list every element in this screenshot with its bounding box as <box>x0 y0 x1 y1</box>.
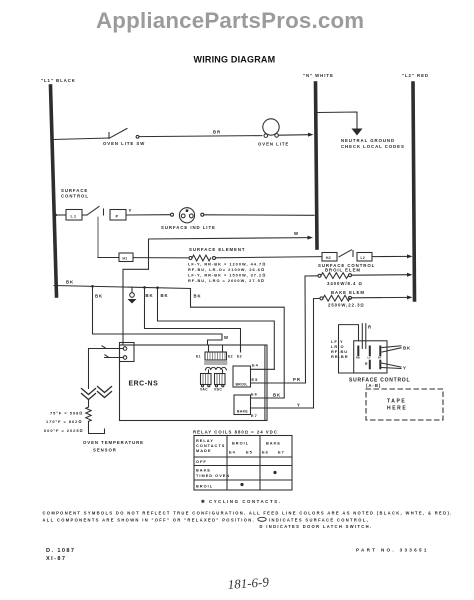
relay broil K1 <box>233 366 251 387</box>
svg-text:E6: E6 <box>262 450 269 455</box>
svg-text:PR: PR <box>293 377 301 382</box>
ground chassis <box>131 287 133 293</box>
wire element to H2 <box>216 257 323 258</box>
wire E7 Y <box>251 407 314 409</box>
wire sensor lead 1 <box>89 348 124 350</box>
svg-text:SURFACE: SURFACE <box>61 188 88 193</box>
svg-text:✱ CYCLING CONTACTS.: ✱ CYCLING CONTACTS. <box>201 499 281 504</box>
svg-text:Y: Y <box>129 208 133 213</box>
wire Y leads <box>381 363 401 367</box>
svg-text:H2: H2 <box>326 256 331 260</box>
svg-text:BR: BR <box>213 130 221 135</box>
svg-text:"N" WHITE: "N" WHITE <box>303 73 334 78</box>
svg-text:E4: E4 <box>252 363 259 368</box>
svg-text:PART NO. 333651: PART NO. 333651 <box>356 548 429 553</box>
svg-text:BROIL ELEM: BROIL ELEM <box>325 268 361 273</box>
wire E4 <box>251 368 275 370</box>
wire L1 bus bottom row <box>54 286 191 289</box>
svg-text:BK: BK <box>161 293 169 298</box>
svg-text:E5: E5 <box>246 450 253 455</box>
svg-text:BK: BK <box>194 294 202 299</box>
svg-text:H1: H1 <box>123 256 128 260</box>
svg-text:SURFACE ELEMENT: SURFACE ELEMENT <box>189 247 246 252</box>
svg-text:E7: E7 <box>278 450 285 455</box>
svg-text:181-6-9: 181-6-9 <box>227 574 270 592</box>
svg-text:CONTROL: CONTROL <box>61 194 89 199</box>
svg-text:RR-BR: RR-BR <box>331 354 349 359</box>
svg-text:LF-Y, RR-BK = 1200W, 44.7Ω: LF-Y, RR-BK = 1200W, 44.7Ω <box>188 262 266 267</box>
svg-text:3400W/8.4 Ω: 3400W/8.4 Ω <box>327 281 363 286</box>
wire oven lite row left <box>53 138 109 140</box>
svg-text:MADE: MADE <box>196 448 211 453</box>
terminal P box <box>110 210 126 221</box>
svg-text:E5: E5 <box>252 377 259 382</box>
svg-text:P: P <box>116 214 120 219</box>
svg-text:INDICATES SURFACE CONTROL,: INDICATES SURFACE CONTROL, <box>269 518 369 523</box>
transformer T1 <box>208 345 210 352</box>
svg-text:(A-B): (A-B) <box>366 383 381 388</box>
wire switch linkage <box>97 217 99 258</box>
svg-text:AppliancePartsPros.com: AppliancePartsPros.com <box>96 8 364 33</box>
wire PR riser <box>304 276 307 383</box>
svg-text:CHECK LOCAL CODES: CHECK LOCAL CODES <box>341 144 405 149</box>
svg-text:RF-BU, LR-O= 2100W, 26.6Ω: RF-BU, LR-O= 2100W, 26.6Ω <box>188 267 265 272</box>
svg-text:L1: L1 <box>71 214 78 219</box>
svg-text:XI-87: XI-87 <box>46 556 66 562</box>
lamp oven lite <box>263 119 279 135</box>
switch door latch D <box>339 250 352 257</box>
svg-text:BK: BK <box>66 280 74 285</box>
svg-text:BK: BK <box>403 346 411 351</box>
wire W drop <box>123 239 149 345</box>
svg-text:BROIL: BROIL <box>196 484 213 489</box>
ERC control box <box>120 345 268 421</box>
bus N <box>316 83 318 248</box>
bus L2 <box>413 83 415 300</box>
svg-text:LF: LF <box>368 356 372 360</box>
wire along ERC right edge <box>264 346 266 421</box>
wire P to lamp <box>126 214 171 216</box>
svg-text:600°F = 2025Ω: 600°F = 2025Ω <box>44 428 84 433</box>
svg-text:BK: BK <box>273 393 281 398</box>
svg-text:R: R <box>365 362 368 366</box>
svg-text:RELAY COILS 880Ω ≈ 24 VDC: RELAY COILS 880Ω ≈ 24 VDC <box>193 430 278 435</box>
terminal L1 box <box>66 210 82 221</box>
wire oven lite row mid <box>139 136 262 137</box>
wire E6 nest <box>191 289 285 399</box>
resistor sensor <box>86 407 91 421</box>
svg-text:RF-BU, LRO = 2600W, 27.5Ω: RF-BU, LRO = 2600W, 27.5Ω <box>188 278 265 283</box>
svg-text:"L1" BLACK: "L1" BLACK <box>41 78 76 83</box>
wire E3 nest <box>145 287 241 352</box>
wire L1 to terminal box <box>56 214 67 216</box>
svg-text:E4: E4 <box>229 450 236 455</box>
resistor broil element <box>321 273 348 279</box>
wire broil row <box>305 275 318 277</box>
svg-text:RF: RF <box>378 356 382 360</box>
switch surface control pole <box>82 214 87 216</box>
resistor surface element <box>192 255 211 261</box>
svg-text:W: W <box>224 335 229 340</box>
node junction row <box>91 285 94 288</box>
svg-text:ALL COMPONENTS ARE SHOWN IN ": ALL COMPONENTS ARE SHOWN IN "OFF" OR "RE… <box>43 518 256 523</box>
svg-text:BROIL: BROIL <box>236 383 248 387</box>
svg-text:OVEN LITE SW: OVEN LITE SW <box>103 141 145 146</box>
terminal H1 box <box>119 253 133 262</box>
svg-text:TIMED OVEN: TIMED OVEN <box>196 473 230 478</box>
wire bake row <box>314 297 321 299</box>
oven temperature sensor <box>88 349 90 389</box>
svg-text:VAC: VAC <box>200 388 208 392</box>
wire E5 PR <box>251 382 306 384</box>
svg-text:2500W,22.3Ω: 2500W,22.3Ω <box>328 303 365 308</box>
svg-text:E2: E2 <box>228 355 233 359</box>
svg-text:Y: Y <box>403 366 407 371</box>
terminal L2 box <box>357 253 372 262</box>
coil VDC <box>215 374 226 385</box>
svg-text:HERE: HERE <box>387 406 407 412</box>
wire BK leads <box>382 346 401 348</box>
wire oven lite row right <box>279 134 310 137</box>
surface control A-B connector <box>354 341 387 373</box>
wire E3 terminal <box>240 345 242 352</box>
wire lamp to N bus <box>204 214 314 217</box>
svg-text:NEUTRAL GROUND: NEUTRAL GROUND <box>341 138 395 143</box>
switch oven lite sw <box>108 133 110 139</box>
wire neutral ground tap <box>318 112 357 129</box>
svg-text:RB: RB <box>356 356 360 360</box>
coil VAC <box>201 374 212 385</box>
svg-text:W: W <box>294 231 299 236</box>
svg-text:TAPE: TAPE <box>387 399 406 405</box>
svg-text:OFF: OFF <box>196 459 207 464</box>
svg-text:BK: BK <box>95 294 103 299</box>
lamp surface ind lite <box>179 208 194 223</box>
svg-text:L2: L2 <box>361 256 366 260</box>
svg-text:BAKE: BAKE <box>196 468 211 473</box>
svg-text:D INDICATES DOOR LATCH SWITC: D INDICATES DOOR LATCH SWITCH. <box>260 524 373 529</box>
svg-text:WIRING DIAGRAM: WIRING DIAGRAM <box>194 55 276 65</box>
wire L2 box to bus <box>372 255 408 257</box>
resistor bake element <box>323 295 350 301</box>
wire R pair <box>361 324 363 349</box>
svg-text:Y: Y <box>297 403 301 408</box>
svg-text:"L2" RED: "L2" RED <box>402 73 429 78</box>
bus L1 <box>51 86 57 296</box>
svg-text:OVEN LITE: OVEN LITE <box>258 142 289 147</box>
terminal H2 box <box>322 253 337 262</box>
svg-text:OVEN TEMPERATURE: OVEN TEMPERATURE <box>83 440 144 445</box>
svg-text:BAKE: BAKE <box>266 441 281 446</box>
svg-text:COMPONENT SYMBOLS DO NOT REFLE: COMPONENT SYMBOLS DO NOT REFLECT TRUE CO… <box>43 511 453 516</box>
connector sensor terminal block <box>120 343 135 362</box>
tape here box <box>366 389 443 420</box>
svg-text:E7: E7 <box>251 413 258 418</box>
wire H1 row <box>98 257 119 259</box>
wire W nest <box>93 286 223 345</box>
relay bake K2 <box>234 395 251 415</box>
svg-text:170°F = 862Ω: 170°F = 862Ω <box>46 419 82 424</box>
svg-text:SENSOR: SENSOR <box>93 448 117 453</box>
svg-text:BAKE: BAKE <box>237 410 248 414</box>
svg-text:75°F = 598Ω: 75°F = 598Ω <box>50 411 83 416</box>
svg-text:LF-Y, RR-BK = 1500W, 37.2Ω: LF-Y, RR-BK = 1500W, 37.2Ω <box>188 273 266 278</box>
svg-text:D. 1087: D. 1087 <box>46 548 75 554</box>
svg-text:VDC: VDC <box>214 388 222 392</box>
wire A-B loop <box>339 325 359 373</box>
svg-text:SURFACE IND LITE: SURFACE IND LITE <box>161 225 216 230</box>
wire W to N bus <box>149 238 309 239</box>
svg-text:E6: E6 <box>251 392 258 397</box>
wire Y riser <box>313 299 315 408</box>
wire sensor lead 2 <box>105 357 124 359</box>
svg-text:R: R <box>368 325 372 330</box>
wire H1 to resistor <box>133 257 189 259</box>
wire E6 BK <box>251 397 285 399</box>
ground neutral <box>352 129 363 136</box>
svg-text:ERC-NS: ERC-NS <box>129 381 159 388</box>
svg-text:BAKE ELEM: BAKE ELEM <box>331 290 365 295</box>
svg-text:BROIL: BROIL <box>232 441 249 446</box>
svg-text:E3: E3 <box>237 355 242 359</box>
node junction on L1 <box>54 214 57 217</box>
svg-text:BK: BK <box>146 293 154 298</box>
svg-text:E1: E1 <box>196 355 201 359</box>
wire E4 nest <box>158 288 275 370</box>
